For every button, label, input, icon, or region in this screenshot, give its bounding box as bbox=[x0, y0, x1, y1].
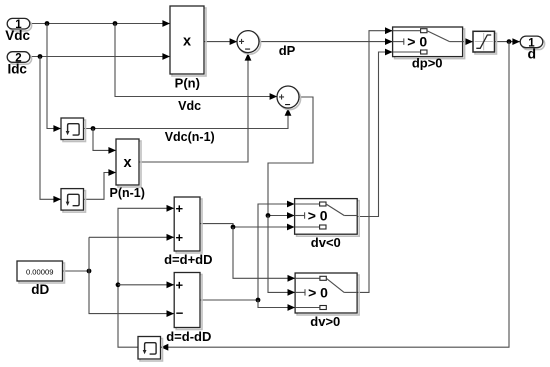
wire: Idc branch down to Unit Delay2 bbox=[40, 57, 61, 203]
svg-text:dP: dP bbox=[279, 43, 296, 58]
wire d-dD: Subtract block output to dv<0 input 1 and dv>0 input 3, junction dot bbox=[200, 201, 295, 311]
wire dP: Sum1 output to switch dp>0 control input bbox=[259, 38, 393, 45]
wire d feedback: Saturation output to outport and down around to Unit Delay3, junction dot bbox=[161, 38, 520, 350]
inport 1 bbox=[5, 18, 31, 42]
svg-text:dp>0: dp>0 bbox=[412, 56, 443, 71]
wire dD: Constant output, riser to both Add-block second inputs, junction dot bbox=[63, 234, 175, 317]
switch dp>0 bbox=[393, 27, 465, 71]
svg-text:Vdc: Vdc bbox=[5, 28, 30, 43]
sum block Sum2 (dV = Vdc - Vdc(n-1)) bbox=[277, 86, 301, 111]
switch dv<0 bbox=[295, 199, 360, 251]
svg-text:d: d bbox=[528, 46, 537, 62]
wire: Vdc branch down to Unit Delay1 bbox=[47, 24, 61, 132]
wire d+dD: Add block output to dv<0 input 3 and dv>0 input 1, junction dot bbox=[200, 224, 295, 282]
wire: dv>0 output up to dp>0 input 1 bbox=[357, 27, 393, 292]
svg-text:> 0: > 0 bbox=[308, 208, 328, 224]
wire: dp>0 output to Saturation bbox=[463, 38, 473, 45]
svg-text:d=d-dD: d=d-dD bbox=[166, 329, 211, 344]
svg-text:Vdc(n-1): Vdc(n-1) bbox=[165, 130, 215, 144]
svg-text:dv>0: dv>0 bbox=[310, 314, 340, 329]
add block d=d-dD bbox=[166, 273, 211, 345]
unit delay Idc(n-1) bbox=[61, 189, 86, 213]
svg-text:+: + bbox=[176, 230, 184, 245]
svg-text:Idc: Idc bbox=[7, 61, 27, 76]
switch dv>0 bbox=[295, 273, 359, 329]
svg-text:x: x bbox=[123, 155, 131, 171]
wire d(n-1): Unit Delay3 output up to d=d+dD and d=d-dD first inputs, junction dot bbox=[116, 205, 175, 347]
svg-text:x: x bbox=[183, 34, 191, 50]
inport 2 bbox=[7, 52, 31, 77]
svg-text:−: − bbox=[245, 45, 251, 56]
svg-text:dD: dD bbox=[31, 282, 49, 297]
svg-text:+: + bbox=[176, 201, 184, 216]
svg-text:d=d+dD: d=d+dD bbox=[164, 252, 212, 267]
wire: Unit Delay2 output to P(n-1) input 2 bbox=[84, 169, 116, 199]
svg-text:Vdc: Vdc bbox=[178, 99, 201, 113]
product P(n-1) bbox=[109, 139, 144, 200]
svg-text:+: + bbox=[176, 277, 184, 292]
wire Vdc(n-1): Unit Delay1 output to Sum2 minus input, branch to P(n-1) input 1, junction dot bbox=[84, 108, 292, 154]
wire: P(n-1) output to Sum1 minus input bbox=[139, 53, 251, 162]
svg-text:0.00009: 0.00009 bbox=[26, 267, 53, 276]
unit delay3 (d(n-1), mirrored) bbox=[138, 337, 163, 362]
unit delay Vdc(n-1) bbox=[61, 118, 86, 142]
sum block Sum1 (dP = P(n) - P(n-1)) bbox=[237, 31, 261, 56]
outport 1 (d) bbox=[520, 36, 544, 62]
add block d=d+dD bbox=[164, 197, 212, 267]
wire Idc: inport 2 to P(n) input 2, junction dot bbox=[30, 53, 171, 60]
constant dD = 0.00009 bbox=[17, 261, 65, 297]
svg-text:> 0: > 0 bbox=[407, 34, 427, 50]
wire: dv<0 output up to dp>0 input 3 bbox=[357, 49, 393, 217]
wire: P(n) output to Sum1 plus input bbox=[204, 38, 237, 45]
svg-text:−: − bbox=[285, 100, 291, 111]
svg-text:> 0: > 0 bbox=[308, 284, 328, 300]
saturation block bbox=[473, 31, 497, 54]
wire Vdc branch to Sum2 plus input (labeled Vdc) bbox=[115, 24, 277, 100]
product P(n) bbox=[170, 6, 206, 91]
svg-text:P(n): P(n) bbox=[175, 76, 200, 91]
wire Vdc: inport 1 to P(n) input 1, junction dots bbox=[30, 20, 171, 27]
svg-text:−: − bbox=[176, 305, 184, 320]
wire dV: Sum2 output down to dv<0 and dv>0 control inputs, junction dot bbox=[266, 97, 313, 296]
svg-text:P(n-1): P(n-1) bbox=[109, 186, 144, 200]
svg-text:dv<0: dv<0 bbox=[311, 235, 341, 250]
